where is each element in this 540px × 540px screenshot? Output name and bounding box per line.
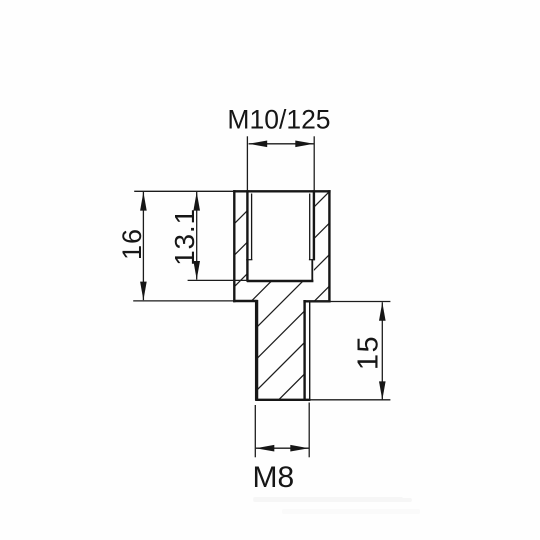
stud left edge: [255, 300, 258, 400]
bore minor thread line right: [309, 194, 311, 260]
arrow up 16: [140, 192, 147, 211]
arrow left M10: [249, 141, 268, 148]
flange left edge: [233, 190, 235, 302]
thread end tick left: [246, 259, 252, 261]
stud thread major right: [309, 302, 311, 400]
dim line: [256, 447, 309, 449]
dim line: [196, 192, 198, 280]
bottom ext line: [309, 399, 390, 401]
dimension 15: [308, 302, 390, 401]
svg-text:16: 16: [117, 228, 147, 260]
ext line left: [254, 405, 256, 457]
top ext line: [134, 190, 234, 192]
arrow up 15: [379, 302, 386, 321]
bore major dia right: [313, 190, 315, 260]
flange right edge: [328, 190, 330, 302]
arrow right M10: [295, 141, 314, 148]
dimension 16: [133, 191, 235, 301]
flange bottom right: [303, 300, 330, 302]
arrow right M8: [290, 445, 309, 452]
flange bottom left: [233, 300, 258, 302]
svg-text:15: 15: [352, 335, 384, 370]
svg-text:M10/125: M10/125: [227, 105, 330, 135]
dim line: [381, 302, 383, 400]
dimension 13.1: [188, 192, 248, 280]
arrow down 13.1: [193, 261, 200, 280]
svg-text:M8: M8: [253, 461, 295, 494]
dim line: [249, 143, 314, 145]
ext line left: [246, 136, 248, 190]
bore bottom: [247, 280, 314, 282]
bore minor thread line left: [251, 194, 253, 260]
part outline: [233, 190, 331, 400]
dim line: [142, 192, 144, 300]
flange top face: [233, 190, 331, 192]
svg-text:13.1: 13.1: [169, 208, 200, 266]
stud right edge: [303, 300, 305, 400]
stud bottom: [255, 399, 310, 401]
bottom ext line: [133, 300, 235, 302]
top ext line: [308, 301, 390, 303]
dimension M8: [255, 403, 309, 458]
dimension M10/125: [247, 136, 314, 190]
arrow left M8: [256, 445, 275, 452]
thread end tick right: [309, 259, 315, 261]
ext line right: [308, 403, 310, 458]
faint watermark smudge: [253, 497, 420, 514]
arrow down 15: [379, 381, 386, 400]
bore drill wall right: [311, 259, 313, 282]
bottom ext line: [188, 279, 248, 281]
bore major dia left: [246, 190, 248, 282]
ext line right: [313, 136, 315, 190]
arrow up 13.1: [193, 192, 200, 211]
arrow down 16: [140, 282, 147, 301]
